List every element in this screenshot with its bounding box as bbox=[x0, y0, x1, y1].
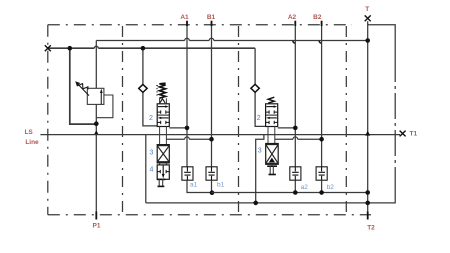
valve1 compensator section 3 box bbox=[157, 145, 169, 163]
node: T to return bus dot bbox=[365, 38, 370, 43]
valve1 relief section 4 box bbox=[157, 165, 169, 179]
wire: tank corner loop top right bbox=[368, 25, 395, 56]
node: b1 bus dot bbox=[210, 190, 215, 195]
node: A1 gallery dot bbox=[185, 126, 190, 131]
section divider 3 bbox=[345, 26, 347, 215]
svg-text:T1: T1 bbox=[410, 130, 418, 137]
anti-shock valve b1 box bbox=[206, 167, 217, 180]
valve2 pos-b arrow bbox=[268, 117, 277, 119]
relief valve pilot loop bbox=[96, 95, 113, 118]
wire: b1 outlet bbox=[211, 180, 213, 192]
valve1 drain stem bbox=[157, 178, 166, 180]
wire: A1 port line bbox=[186, 21, 188, 167]
svg-text:P1: P1 bbox=[93, 222, 101, 229]
wire: A2 port line bbox=[294, 21, 296, 167]
svg-text:B2: B2 bbox=[313, 14, 322, 21]
anti-shock valve a1 box bbox=[182, 167, 193, 180]
relief valve internal arrow bbox=[100, 92, 102, 105]
valve2 spool section 2 box bbox=[266, 104, 278, 127]
port tick B1 bbox=[211, 21, 213, 26]
svg-text:3: 3 bbox=[150, 149, 154, 156]
svg-text:A2: A2 bbox=[288, 14, 297, 21]
wire: section1 feed with orifice bbox=[143, 48, 157, 126]
node: drain bus dot on feed bus bbox=[68, 46, 73, 51]
relief valve spring bbox=[78, 83, 89, 89]
svg-text:T: T bbox=[365, 6, 369, 13]
wire: B2 port line bbox=[321, 21, 323, 167]
hop A2 on B2 gallery bbox=[293, 137, 298, 139]
valve1 spool section 2 box bbox=[157, 104, 169, 127]
svg-text:B1: B1 bbox=[207, 14, 216, 21]
wire: tank bus y=202.9 bbox=[146, 202, 395, 204]
node: tank bus dot 1 bbox=[253, 201, 258, 206]
valve1 caret bbox=[160, 99, 165, 103]
wire: relief valve outlet to P node bbox=[95, 104, 97, 123]
enclosure boundary left bbox=[47, 25, 49, 215]
valve1 pos-b closed ports bbox=[157, 121, 169, 124]
svg-text:2: 2 bbox=[149, 115, 153, 122]
valve1 pos-a arrow bbox=[158, 106, 167, 108]
port tick A1 bbox=[186, 21, 188, 26]
port tick A2 bbox=[294, 21, 296, 26]
wire: B1 port line bbox=[211, 21, 213, 167]
node: b2 bus dot bbox=[319, 190, 324, 195]
hop A2 on return bus bbox=[293, 41, 295, 43]
wire: valve2 to A2 gallery bbox=[278, 127, 296, 129]
valve2 drain stem bbox=[271, 164, 273, 166]
svg-text:b2: b2 bbox=[327, 184, 335, 191]
wire: a2 outlet bbox=[294, 180, 296, 192]
relief valve adjust arrow bbox=[77, 83, 89, 95]
node: P junction dot bbox=[94, 121, 99, 126]
hop B1 on return bus bbox=[209, 38, 214, 40]
wire: P1 line down to port bbox=[95, 124, 97, 220]
anti-shock valve a2 box bbox=[290, 167, 301, 180]
svg-text:b1: b1 bbox=[217, 182, 225, 189]
valve2 compensator X box bbox=[266, 144, 279, 165]
section divider 1 bbox=[122, 26, 124, 215]
hop relief feed on feed bus bbox=[94, 46, 98, 48]
X plug T1 bbox=[400, 131, 406, 137]
orifice diamond section1 bbox=[139, 84, 147, 92]
wire: b2 outlet bbox=[321, 180, 323, 192]
section divider 2 bbox=[238, 26, 240, 215]
wire: shock return bus y=192.5 bbox=[212, 192, 368, 194]
relief valve RV box bbox=[87, 88, 104, 104]
wire: pressure feed bus y=48.2 bbox=[48, 47, 255, 49]
svg-text:a2: a2 bbox=[301, 184, 309, 191]
wire: valve1 to B1 gallery with hop bbox=[166, 138, 211, 140]
svg-text:2: 2 bbox=[257, 115, 261, 122]
enclosure boundary bottom bbox=[48, 214, 371, 216]
hop A1 on B1 gallery bbox=[185, 137, 190, 139]
wire: P1 drain riser x=69.8 bbox=[70, 48, 97, 124]
LS blob at T crossing bbox=[365, 131, 370, 136]
wire: tank corner loop bottom right bbox=[394, 188, 396, 204]
wire: section2 feed with orifice bbox=[255, 48, 266, 126]
wire: valve1 to A1 gallery bbox=[169, 127, 187, 129]
wire: relief return bus y=40.5 bbox=[96, 40, 367, 42]
wire: T port line bbox=[367, 21, 369, 219]
valve1 spring side ticks bbox=[156, 86, 158, 96]
enclosure boundary top bbox=[48, 24, 352, 26]
port tick P1 bbox=[95, 212, 97, 220]
valve1 interstage stubs bbox=[160, 127, 167, 145]
valve1 stubs 3-4 bbox=[160, 163, 167, 165]
svg-text:4: 4 bbox=[150, 166, 154, 173]
wire: valve2 to B2 gallery with hop bbox=[275, 138, 322, 140]
valve2 pos-a closed ports bbox=[266, 110, 278, 113]
node: tank bus dot T2 bbox=[365, 201, 370, 206]
wire: LS branch section2 bbox=[256, 135, 264, 203]
LS arrowhead into P node bbox=[94, 130, 99, 134]
svg-text:Line: Line bbox=[25, 139, 39, 146]
node: B1 gallery dot bbox=[209, 137, 214, 142]
wire: relief feed down from return bus bbox=[95, 41, 97, 89]
node: shock bus dot T2 bbox=[365, 190, 370, 195]
wire: LS line bbox=[40, 134, 400, 136]
hop A1 on return bus bbox=[185, 38, 190, 40]
node: section1 feed dot bbox=[141, 46, 146, 51]
svg-text:T2: T2 bbox=[367, 225, 375, 232]
node: B2 gallery dot bbox=[319, 137, 324, 142]
valve2 spring bbox=[268, 97, 274, 103]
svg-text:3: 3 bbox=[258, 148, 262, 155]
port tick T2 bbox=[367, 212, 369, 220]
X plug T top bbox=[365, 15, 371, 21]
node: A2 gallery dot bbox=[293, 126, 298, 131]
valve2 interstage stubs bbox=[268, 127, 275, 144]
valve1 pos-a closed ports bbox=[157, 110, 169, 113]
anti-shock valve b2 box bbox=[316, 167, 327, 180]
valve1 spring stack bbox=[160, 98, 167, 104]
X plug left port bbox=[45, 45, 51, 51]
node: a2 bus dot bbox=[293, 190, 298, 195]
hop B2 on return bus bbox=[319, 41, 321, 43]
valve2 pos-b closed ports bbox=[266, 121, 278, 124]
port tick B2 bbox=[321, 21, 323, 26]
orifice diamond section2 bbox=[251, 84, 259, 92]
wire: LS to body left edge bbox=[145, 135, 147, 203]
valve1 pos-b arrow bbox=[160, 117, 169, 119]
wire: a1 outlet to relief bus bbox=[187, 180, 212, 192]
svg-text:LS: LS bbox=[24, 129, 33, 136]
enclosure boundary right (mixed) bbox=[394, 56, 396, 188]
valve2 pos-a arrow bbox=[266, 106, 275, 108]
svg-text:a1: a1 bbox=[190, 182, 198, 189]
svg-text:A1: A1 bbox=[180, 14, 189, 21]
